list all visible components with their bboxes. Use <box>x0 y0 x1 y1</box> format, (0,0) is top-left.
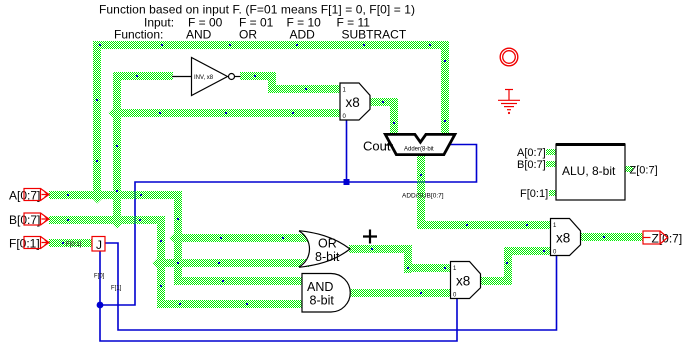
wire net INVB: inverter output segment <box>240 72 276 80</box>
svg-text:B[0:7]: B[0:7] <box>517 159 546 171</box>
svg-text:Adder(8-bit: Adder(8-bit <box>404 147 434 153</box>
blue nets <box>97 120 557 341</box>
svg-text:AND: AND <box>186 28 212 42</box>
wire net ADD/SUB: row to mux M3 input 1 <box>417 221 551 229</box>
wire net LOGIC: row to mux M3 input 0 <box>504 247 551 255</box>
wire net B: row to mux M1 input 0 <box>113 109 341 117</box>
wire net LOGIC: mux M2 output <box>480 277 512 285</box>
wire net A: vertical down to adder right input <box>441 41 449 134</box>
AND gate U5 (AND 8-bit) <box>302 274 350 313</box>
junction dot (square) on F[0] net at mux M1 select rail <box>344 179 350 185</box>
bus tap J on net F <box>92 237 105 253</box>
wire net F: input row from F[0:1] port to bus tap J <box>49 239 92 247</box>
wire net OR8: step down vertical <box>404 245 412 273</box>
svg-text:x8: x8 <box>346 95 360 110</box>
junction node B at (117,220) <box>109 212 126 229</box>
header text line 1 <box>99 3 415 42</box>
wire net INVB: row to mux M1 input 1 <box>268 85 341 93</box>
wire net B: vertical from inverter row down to B row <box>113 72 121 224</box>
svg-text:OR: OR <box>318 237 337 251</box>
junction node B at (161,263) <box>153 255 170 272</box>
svg-text:A[0:7]: A[0:7] <box>517 147 546 159</box>
wire net F[0] branch: up to mux M1 select pin <box>346 120 348 182</box>
inverter U1 (INV, x8) <box>192 58 241 96</box>
pin stub F[0:1] of ALU symbol <box>549 190 556 196</box>
svg-text:F[0:1]: F[0:1] <box>66 242 82 248</box>
input port B[0:7] <box>9 213 49 227</box>
small blue vertex dots on green wires <box>62 44 605 305</box>
junction node A at (178,238) <box>170 230 187 247</box>
svg-text:ADD: ADD <box>290 28 316 42</box>
svg-text:8-bit: 8-bit <box>310 294 335 308</box>
svg-text:ADD/SUB[0:7]: ADD/SUB[0:7] <box>402 193 444 200</box>
green wire junctions (diamonds) <box>89 105 187 272</box>
pin stub Z[0:7] of ALU symbol <box>625 166 633 172</box>
wire net B: vertical down to gate inputs <box>157 216 165 308</box>
wire net A: branch to AND gate top input <box>174 277 303 285</box>
pin stub B[0:7] of ALU symbol <box>546 161 556 167</box>
wire net B: branch to AND gate bottom input <box>157 300 303 308</box>
wire net Z: mux M3 output to Z[0:7] port <box>581 233 643 241</box>
svg-text:Cout: Cout <box>363 139 391 154</box>
OR gate U4 (OR 8-bit) <box>299 231 350 268</box>
input port F[0:1] <box>9 237 49 251</box>
wire net A: left vertical from top bus down to A row <box>93 41 101 199</box>
mux U2 (x8) top: selects B / inverted B <box>340 83 370 120</box>
wire net AND8: AND gate output to mux M2 input 0 <box>350 289 451 297</box>
svg-text:J: J <box>96 238 102 252</box>
wire net ADD/SUB: adder output vertical <box>417 154 425 229</box>
wire net A: vertical down to gate inputs <box>174 191 182 285</box>
output port Z[0:7] <box>643 231 682 246</box>
svg-text:x8: x8 <box>556 231 570 246</box>
svg-text:AND: AND <box>307 280 333 294</box>
wire net LOGIC: step up vertical <box>504 247 512 285</box>
wire net A: input row from A[0:7] port <box>49 191 182 199</box>
svg-text:x8: x8 <box>456 274 470 289</box>
svg-text:Z[0:7]: Z[0:7] <box>630 165 658 177</box>
svg-text:SUBTRACT: SUBTRACT <box>342 28 407 42</box>
junction node B at (117,113) <box>109 105 126 122</box>
mux U7 (x8) output: selects logic / arithmetic result <box>551 219 581 256</box>
svg-text:ALU, 8-bit: ALU, 8-bit <box>562 164 616 178</box>
wire net F[1]: J tap right, down, along bottom, up to mux M3 select <box>105 243 557 330</box>
svg-text:Function:: Function: <box>114 28 163 42</box>
pin stub A[0:7] of ALU symbol <box>546 149 556 155</box>
wire net INVB: step down vertical <box>268 72 276 93</box>
plus sign annotation <box>363 230 377 244</box>
mux U6 (x8) bottom: selects AND / OR result <box>451 262 481 299</box>
svg-text:INV, x8: INV, x8 <box>194 75 214 81</box>
svg-text:F[0:1]: F[0:1] <box>520 188 548 200</box>
adder U3 (Adder 8-bit) <box>363 134 455 154</box>
wire net OR8: OR gate output <box>349 245 412 253</box>
wire net F[0]: J tap down, along bottom, up to mux M2 select <box>100 251 457 341</box>
wire net A: top bus horizontal <box>93 41 449 49</box>
green highlighted wires (net A, B, etc.) <box>49 41 643 308</box>
svg-text:F[1]: F[1] <box>111 286 122 292</box>
wire net A: branch to OR gate top input <box>174 234 310 242</box>
ground symbol <box>498 90 520 115</box>
wire net F[0] branch: junction dot to mux M1 select rail and adder Cin <box>100 145 477 306</box>
wire net B: row to inverter input <box>113 72 173 80</box>
power indicator (red double circle) <box>500 48 518 66</box>
input port A[0:7] <box>9 189 49 203</box>
wire net B: branch to OR gate bottom input <box>157 259 310 267</box>
ALU block symbol U8 <box>517 144 658 200</box>
junction node A at (97,195) <box>89 187 106 204</box>
svg-text:Function based on input F. (F=: Function based on input F. (F=01 means F… <box>99 3 415 17</box>
inverter U1 input wire <box>172 76 192 78</box>
wire net OR8: row to mux M2 input 1 <box>404 264 451 272</box>
wire net BMUX: mux M1 output <box>370 98 398 106</box>
wire net BMUX: vertical down to adder left input <box>390 98 398 134</box>
svg-text:OR: OR <box>239 28 257 42</box>
pin stub Cout of adder U3 <box>385 144 393 146</box>
wire net B: input row from B[0:7] port <box>49 216 165 224</box>
svg-text:F[0]: F[0] <box>94 274 105 280</box>
svg-text:8-bit: 8-bit <box>315 250 340 264</box>
junction dot (round) on F[0] net <box>97 302 104 309</box>
